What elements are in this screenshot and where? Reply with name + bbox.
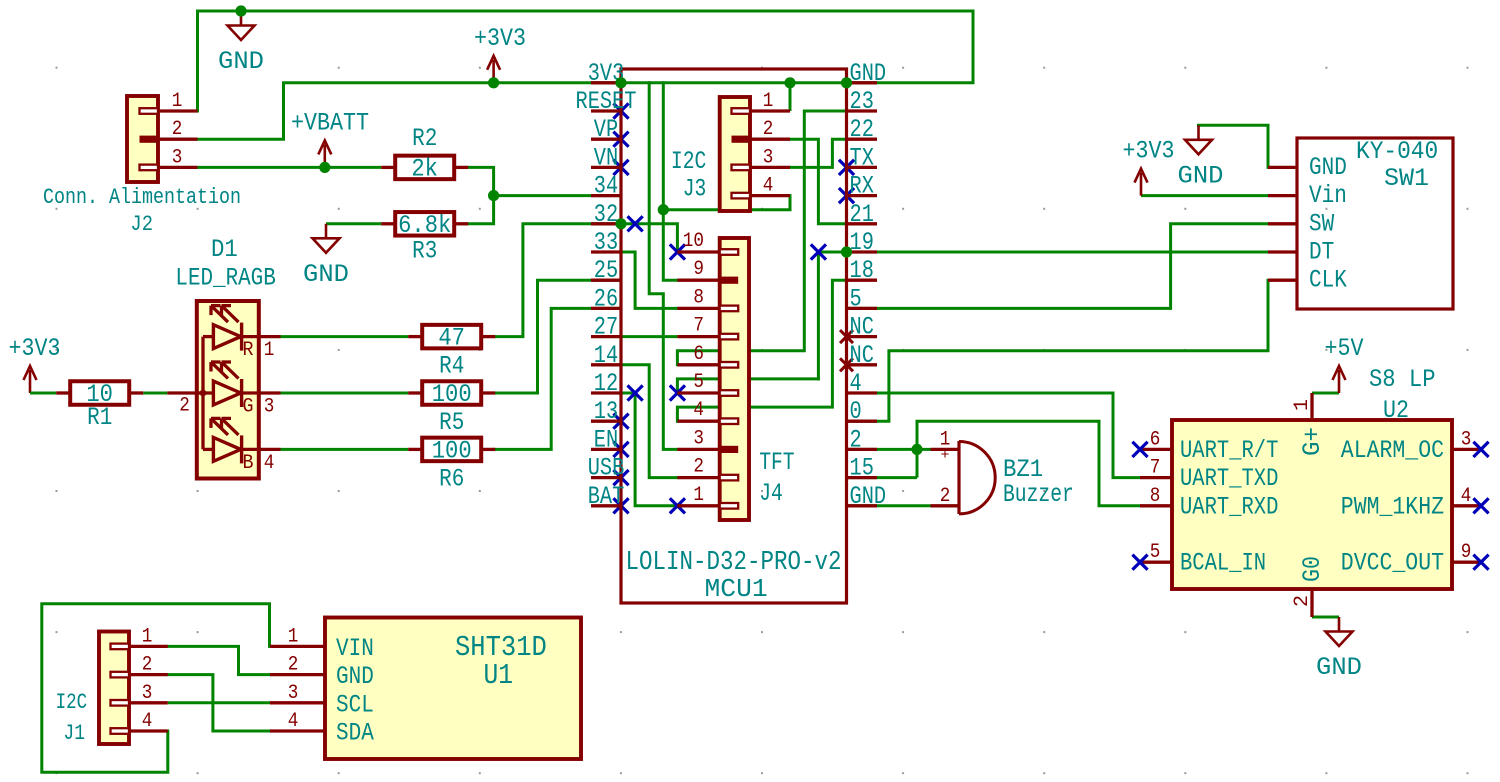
svg-text:4: 4	[1461, 485, 1472, 508]
svg-text:+VBATT: +VBATT	[291, 108, 369, 137]
svg-text:GND: GND	[218, 47, 264, 76]
svg-text:J2: J2	[130, 212, 153, 237]
svg-text:UART_TXD: UART_TXD	[1180, 464, 1278, 493]
svg-text:S8 LP: S8 LP	[1369, 365, 1436, 394]
svg-text:22: 22	[850, 115, 874, 144]
svg-text:SW: SW	[1309, 209, 1334, 238]
svg-text:2: 2	[763, 118, 774, 141]
svg-text:KY-040: KY-040	[1356, 137, 1438, 166]
svg-text:GND: GND	[1309, 153, 1347, 182]
svg-text:GND: GND	[336, 662, 374, 691]
svg-text:4: 4	[693, 399, 704, 422]
svg-text:EN: EN	[594, 425, 618, 454]
svg-text:GND: GND	[850, 59, 887, 88]
svg-text:26: 26	[594, 284, 618, 313]
svg-text:+5V: +5V	[1325, 334, 1364, 363]
svg-text:G+: G+	[1298, 427, 1327, 456]
svg-text:10: 10	[683, 230, 704, 253]
svg-text:1: 1	[142, 625, 153, 648]
svg-text:R3: R3	[412, 236, 437, 265]
svg-text:23: 23	[850, 87, 874, 116]
svg-text:U1: U1	[484, 659, 514, 692]
svg-text:G0: G0	[1298, 556, 1327, 582]
svg-text:25: 25	[594, 256, 618, 285]
svg-text:1: 1	[1291, 399, 1314, 411]
svg-text:5: 5	[850, 284, 862, 313]
svg-text:UART_RXD: UART_RXD	[1180, 492, 1278, 521]
svg-text:U2: U2	[1383, 396, 1409, 425]
svg-text:VP: VP	[594, 115, 618, 144]
svg-text:2: 2	[172, 118, 183, 141]
svg-text:4: 4	[850, 369, 862, 398]
svg-text:J3: J3	[683, 175, 707, 204]
svg-text:100: 100	[432, 436, 472, 465]
svg-text:GND: GND	[1178, 161, 1224, 190]
svg-text:I2C: I2C	[56, 690, 88, 715]
svg-text:6: 6	[693, 343, 704, 366]
svg-text:1: 1	[288, 625, 299, 648]
svg-text:3: 3	[172, 146, 183, 169]
svg-text:3: 3	[763, 146, 774, 169]
svg-text:15: 15	[850, 454, 874, 483]
svg-text:GND: GND	[850, 482, 887, 511]
svg-text:8: 8	[693, 286, 704, 309]
svg-text:4: 4	[264, 452, 275, 475]
svg-text:5: 5	[1150, 541, 1161, 564]
svg-text:2: 2	[179, 395, 190, 418]
svg-text:21: 21	[850, 200, 874, 229]
svg-text:GND: GND	[1316, 653, 1362, 682]
svg-text:1: 1	[693, 484, 704, 507]
svg-text:TX: TX	[850, 143, 874, 172]
svg-text:19: 19	[850, 228, 874, 257]
svg-text:VIN: VIN	[336, 634, 374, 663]
svg-text:1: 1	[264, 339, 275, 362]
svg-text:R6: R6	[439, 464, 464, 493]
svg-text:BCAL_IN: BCAL_IN	[1180, 549, 1266, 578]
svg-text:3: 3	[693, 427, 704, 450]
svg-text:3: 3	[288, 682, 299, 705]
svg-text:RX: RX	[850, 172, 874, 201]
svg-text:8: 8	[1150, 485, 1161, 508]
svg-text:+3V3: +3V3	[474, 24, 526, 53]
svg-text:2: 2	[693, 456, 704, 479]
svg-text:R: R	[243, 339, 254, 362]
svg-text:1: 1	[172, 90, 183, 113]
svg-text:Vin: Vin	[1309, 181, 1347, 210]
svg-text:4: 4	[763, 175, 774, 198]
svg-text:RESET: RESET	[576, 87, 637, 116]
svg-text:3: 3	[142, 682, 153, 705]
svg-text:MCU1: MCU1	[705, 574, 768, 604]
svg-text:2: 2	[288, 654, 299, 677]
svg-text:PWM_1KHZ: PWM_1KHZ	[1341, 492, 1444, 521]
svg-text:27: 27	[594, 313, 618, 342]
svg-text:SW1: SW1	[1384, 164, 1429, 193]
svg-text:2: 2	[940, 485, 951, 508]
svg-text:34: 34	[594, 172, 618, 201]
svg-text:DT: DT	[1309, 238, 1334, 267]
svg-text:I2C: I2C	[671, 147, 706, 176]
svg-text:USB: USB	[588, 454, 625, 483]
svg-text:GND: GND	[303, 260, 349, 289]
svg-text:2: 2	[1291, 595, 1314, 607]
svg-text:2: 2	[142, 654, 153, 677]
svg-text:0: 0	[850, 397, 862, 426]
svg-text:4: 4	[288, 710, 299, 733]
svg-text:SCL: SCL	[336, 690, 374, 719]
svg-text:NC: NC	[850, 341, 874, 370]
svg-text:47: 47	[438, 324, 465, 353]
svg-text:TFT: TFT	[759, 448, 794, 477]
svg-text:9: 9	[693, 258, 704, 281]
svg-text:R2: R2	[412, 124, 437, 153]
svg-text:13: 13	[594, 397, 618, 426]
svg-text:DVCC_OUT: DVCC_OUT	[1341, 549, 1444, 578]
svg-text:SDA: SDA	[336, 719, 374, 748]
svg-text:G: G	[243, 396, 254, 419]
svg-text:100: 100	[432, 380, 472, 409]
svg-text:R4: R4	[439, 352, 464, 381]
svg-text:ALARM_OC: ALARM_OC	[1341, 436, 1444, 465]
svg-text:14: 14	[594, 341, 618, 370]
svg-text:+3V3: +3V3	[9, 334, 61, 363]
svg-text:CLK: CLK	[1309, 266, 1347, 295]
svg-text:3: 3	[1461, 428, 1472, 451]
svg-text:VN: VN	[594, 143, 618, 172]
svg-text:1: 1	[763, 90, 774, 113]
svg-text:J4: J4	[759, 479, 783, 508]
svg-text:9: 9	[1461, 541, 1472, 564]
svg-text:33: 33	[594, 228, 618, 257]
svg-text:6: 6	[1150, 428, 1161, 451]
svg-text:+3V3: +3V3	[1123, 137, 1175, 166]
svg-text:BAT: BAT	[588, 482, 625, 511]
svg-text:+: +	[940, 447, 949, 464]
svg-text:Conn. Alimentation: Conn. Alimentation	[43, 185, 241, 210]
svg-text:3: 3	[264, 396, 275, 419]
svg-text:R1: R1	[87, 403, 112, 432]
svg-text:J1: J1	[63, 721, 85, 746]
svg-text:2: 2	[850, 425, 862, 454]
svg-text:R5: R5	[439, 408, 464, 437]
svg-text:4: 4	[142, 710, 153, 733]
svg-text:Buzzer: Buzzer	[1003, 480, 1074, 509]
svg-text:D1: D1	[211, 235, 238, 264]
svg-text:7: 7	[1150, 457, 1161, 480]
svg-text:5: 5	[693, 371, 704, 394]
svg-text:18: 18	[850, 256, 874, 285]
svg-text:2k: 2k	[411, 154, 438, 183]
svg-text:32: 32	[594, 200, 618, 229]
svg-text:UART_R/T: UART_R/T	[1180, 436, 1278, 465]
svg-text:12: 12	[594, 369, 618, 398]
svg-text:NC: NC	[850, 313, 874, 342]
svg-text:LED_RAGB: LED_RAGB	[175, 264, 275, 293]
svg-text:B: B	[243, 452, 254, 475]
svg-text:7: 7	[693, 315, 704, 338]
